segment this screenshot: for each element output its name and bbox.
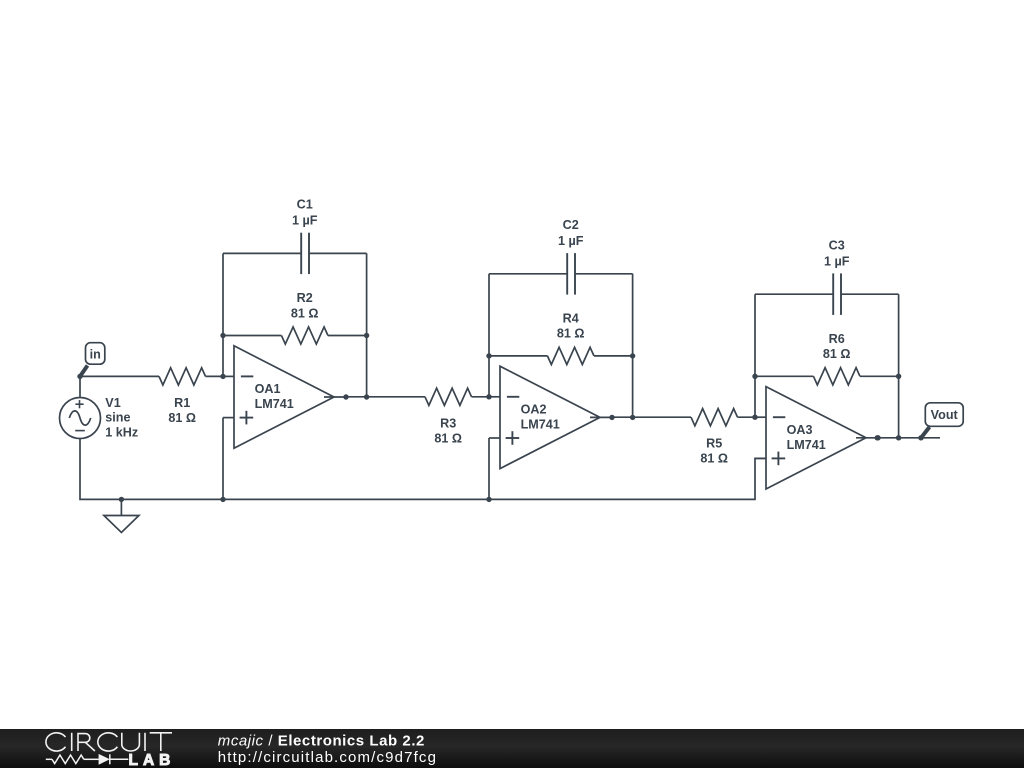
svg-text:81 Ω: 81 Ω (557, 327, 585, 341)
svg-text:LM741: LM741 (255, 397, 294, 411)
svg-text:C1: C1 (297, 198, 313, 212)
svg-text:OA1: OA1 (255, 382, 281, 396)
svg-text:81 Ω: 81 Ω (434, 431, 462, 445)
svg-text:C2: C2 (563, 218, 579, 232)
svg-text:1 µF: 1 µF (558, 234, 584, 248)
svg-text:LM741: LM741 (787, 438, 826, 452)
svg-text:Vout: Vout (931, 408, 959, 422)
svg-text:C3: C3 (829, 238, 845, 252)
svg-text:81 Ω: 81 Ω (291, 306, 319, 320)
svg-text:OA2: OA2 (521, 402, 547, 416)
svg-text:R3: R3 (440, 416, 456, 430)
svg-text:81 Ω: 81 Ω (168, 411, 196, 425)
svg-text:81 Ω: 81 Ω (823, 347, 851, 361)
svg-text:OA3: OA3 (787, 423, 813, 437)
svg-text:http://circuitlab.com/c9d7fcg: http://circuitlab.com/c9d7fcg (218, 749, 437, 766)
svg-text:R6: R6 (829, 332, 845, 346)
svg-text:81 Ω: 81 Ω (700, 452, 728, 466)
svg-text:1 µF: 1 µF (292, 214, 318, 228)
svg-text:R4: R4 (563, 311, 579, 325)
svg-text:sine: sine (105, 411, 130, 425)
svg-text:1 kHz: 1 kHz (105, 426, 138, 440)
svg-text:R1: R1 (174, 396, 190, 410)
svg-text:1 µF: 1 µF (824, 254, 850, 268)
svg-text:R5: R5 (706, 437, 722, 451)
svg-text:LAB: LAB (129, 752, 176, 768)
svg-text:V1: V1 (105, 396, 120, 410)
svg-text:in: in (90, 348, 101, 362)
svg-text:LM741: LM741 (521, 417, 560, 431)
svg-text:mcajic / Electronics Lab 2.2: mcajic / Electronics Lab 2.2 (218, 732, 425, 749)
svg-text:R2: R2 (297, 291, 313, 305)
